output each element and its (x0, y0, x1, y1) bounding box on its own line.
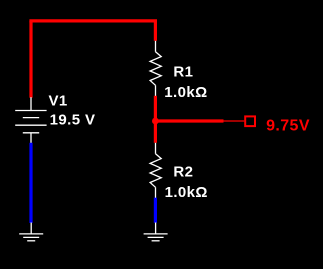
svg-text:1.0kΩ: 1.0kΩ (165, 184, 208, 201)
ground (right) bar 1 (144, 233, 168, 235)
svg-text:1.0kΩ: 1.0kΩ (164, 84, 207, 101)
wire: top horizontal (node V1+ to R1) (29, 19, 157, 22)
resistor R2 zigzag (150, 154, 161, 188)
ground (right) lead (155, 223, 157, 234)
wire: blue right (R2 to ground) (154, 198, 157, 223)
probe lead line (224, 120, 245, 122)
junction dot middle node (152, 118, 159, 125)
battery V1 plate long 2 (15, 124, 46, 126)
wire: left vertical (top node down to V1 +) (29, 21, 32, 98)
svg-text:V1: V1 (49, 93, 68, 110)
ground (right) bar 2 (148, 236, 164, 238)
battery V1 top lead (30, 97, 32, 110)
wire: red R1 bottom to middle node (154, 96, 157, 121)
svg-text:9.75V: 9.75V (266, 118, 310, 135)
ground (left) bar 3 (27, 240, 35, 242)
ground (left) lead (30, 223, 32, 234)
svg-text:R1: R1 (173, 63, 193, 80)
resistor R1 bottom lead (155, 85, 157, 96)
probe square (245, 116, 255, 126)
wire: blue left (V1 - to ground) (29, 143, 32, 223)
svg-text:R2: R2 (173, 163, 193, 180)
wire: right vertical (top node down to R1 pin1) (154, 21, 157, 41)
resistor R2 top lead (155, 143, 157, 154)
wire: red middle node down to R2 pin1 (154, 121, 157, 143)
battery V1 plate short 2 (23, 132, 39, 134)
wire: red middle node horizontal to probe (155, 119, 223, 122)
resistor R2 bottom lead (155, 187, 157, 198)
resistor R1 zigzag (150, 52, 161, 86)
ground (left) bar 1 (19, 233, 43, 235)
svg-text:19.5 V: 19.5 V (50, 112, 96, 129)
ground (left) bar 2 (23, 236, 39, 238)
battery V1 plate short 1 (23, 117, 39, 119)
ground (right) bar 3 (152, 240, 160, 242)
battery V1 plate long 1 (15, 110, 46, 112)
battery V1 bottom lead (30, 133, 32, 143)
resistor R1 top lead (155, 41, 157, 52)
